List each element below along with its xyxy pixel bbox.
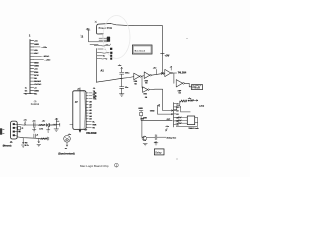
svg-text:(1): (1) (34, 101, 37, 103)
wire flag to ladder (158, 113, 173, 114)
svg-text:GND: GND (34, 66, 39, 68)
power connector pins under box (99, 34, 107, 40)
svg-text:A6: A6 (89, 109, 91, 112)
svg-text:GND: GND (150, 111, 155, 113)
connector J1 pin 4 with label VID (31, 50, 39, 52)
chain1 wire (19, 124, 56, 126)
cap column +5 arrow (121, 67, 123, 71)
tall box pin A3 (86, 118, 88, 120)
svg-text:Delay: Delay (155, 152, 162, 154)
svg-text:+5: +5 (36, 134, 38, 136)
chain2 drop 2 (37, 139, 41, 147)
svg-text:GND: GND (34, 44, 39, 46)
svg-text:TNR: TNR (92, 124, 97, 126)
svg-text:GND: GND (34, 90, 39, 92)
wire U5 output to ladder (149, 89, 173, 111)
wire U3 output junction (172, 73, 176, 83)
svg-text:NC: NC (34, 94, 38, 96)
connector J1 pin 8 with label SND (31, 62, 40, 64)
svg-text:SD: SD (34, 78, 37, 80)
tall box pin A8 (86, 103, 88, 105)
tall box pin A4 (86, 115, 88, 117)
connector J1 pin 2 with label GND (31, 44, 40, 46)
inverter U4 triangle (176, 80, 182, 87)
power PCB box outline (97, 24, 111, 35)
wire from +5v stub to power pins (89, 42, 107, 45)
connector J1 pin 7 with label +12v (31, 59, 52, 61)
tall box pin KE (86, 98, 88, 100)
arrow mark left margin (81, 35, 83, 37)
svg-text:A3: A3 (89, 118, 91, 121)
connector J1 pin 12 with label SCK (31, 75, 40, 77)
connector J1 pin 5 with label HSY (31, 53, 40, 55)
IC box input wires (176, 117, 188, 123)
IC input zigzag a (177, 117, 181, 119)
junction tick at +5V node (161, 54, 165, 56)
svg-text:→+12v: →+12v (44, 59, 51, 61)
connector A1 row 4 (97, 57, 106, 60)
74ALS IC box (187, 116, 194, 125)
svg-text:100u: 100u (125, 73, 130, 75)
diode D1 pair (46, 123, 52, 126)
junction of +5V rail with clock wire (161, 56, 163, 75)
svg-text:D0: D0 (177, 103, 179, 105)
svg-text:Mac Logic Board Chip: Mac Logic Board Chip (80, 164, 109, 168)
svg-text:5v: 5v (103, 56, 105, 58)
arrow under tall box (79, 129, 81, 132)
end bars chain2 (47, 137, 48, 140)
mouse connector pin 3 (13, 131, 15, 133)
svg-text:SCK: SCK (34, 75, 39, 77)
ground under Q1 (143, 143, 147, 145)
stray dot right of wire (186, 38, 187, 39)
speaker circle (64, 136, 71, 143)
resistor R1 vertical (24, 121, 26, 125)
wire rise from A1 node to U1 input (122, 77, 134, 79)
svg-text:Control: Control (31, 103, 40, 106)
crystal X1 body (140, 112, 143, 115)
caption circled 1 (115, 163, 119, 167)
connector J1 pin 1 with label +5v (31, 41, 39, 43)
ladder tap D3 (174, 113, 176, 115)
connector J1 pin 16 with label +5 (25, 87, 38, 89)
ground drop under C3 (32, 127, 36, 132)
tall box pin A9 (86, 101, 88, 103)
ground under C5 (154, 143, 158, 145)
tall box pin A7 (86, 106, 88, 108)
svg-text:(Synchronized): (Synchronized) (58, 153, 75, 156)
crystal X1 bottom lead (140, 116, 142, 121)
svg-text:A7: A7 (89, 106, 91, 109)
svg-text:(+5v): (+5v) (199, 105, 204, 107)
svg-text:→NTSC: →NTSC (42, 56, 50, 58)
top chain staircase wire (174, 101, 180, 110)
IC input zigzag c (177, 122, 181, 124)
clock output box PH0 (192, 85, 203, 90)
IC input zigzag b (177, 120, 181, 122)
faint pencil circle artifact (103, 16, 130, 59)
tall box pin XL (86, 121, 88, 123)
capacitor C4 above chain2 (34, 134, 35, 138)
svg-text:A5: A5 (89, 112, 91, 115)
connector A1 row 3 (97, 55, 103, 57)
tall box pin TK (86, 126, 88, 128)
tall box pin XX (86, 92, 88, 94)
resistor R2 zigzag (38, 124, 44, 126)
crystal X1 top lead (139, 111, 143, 113)
cable tab off-page left (0, 128, 2, 134)
svg-text:74ALS talk: 74ALS talk (188, 127, 199, 130)
mouse connector pin 1 (13, 123, 15, 125)
svg-text:πr: πr (65, 147, 68, 150)
svg-text:+5V: +5V (165, 54, 170, 58)
wire A1 horizontal to cap node (96, 78, 121, 82)
end stack vertical bar (56, 119, 59, 129)
tall box pin A6 (86, 109, 88, 111)
svg-text:GE: GE (94, 96, 98, 98)
tall box pin A5 (86, 112, 88, 114)
pin3 blob (19, 131, 21, 133)
svg-text:→+12v: →+12v (40, 47, 47, 49)
tall box left tick (70, 124, 73, 126)
inverter U3 triangle (165, 69, 171, 76)
svg-text:HSY: HSY (34, 53, 39, 55)
delay box (154, 149, 164, 155)
connector J1 pin 13 with label SD (31, 78, 38, 80)
connector A1 row 2 (97, 51, 110, 54)
wire A1 down-left vertical (96, 49, 98, 83)
arrow +5v down (166, 128, 168, 131)
svg-text:delay line: delay line (167, 137, 178, 139)
ladder tap D4 (174, 116, 176, 118)
connector J1 pin 9 with label GND (31, 66, 40, 68)
tall box pin GE (86, 95, 88, 97)
wire crystal row horizontal (141, 119, 172, 121)
svg-text:VID: VID (34, 50, 38, 52)
ladder tap D1 (174, 106, 176, 108)
mouse connector pin 4 (13, 134, 15, 136)
mouse connector J5 outline (11, 121, 18, 139)
svg-text:D2: D2 (177, 110, 179, 112)
top chain arrow out (193, 100, 197, 101)
wire drop to U5 input (141, 76, 143, 87)
pin2 jack box (18, 127, 21, 130)
chain2 wire (17, 137, 47, 139)
wire Q1 to C5 (147, 137, 156, 139)
+5v stub wire left of power box (87, 30, 90, 42)
svg-text:VSYNC: VSYNC (34, 84, 42, 86)
mouse connector pin 2 (13, 127, 15, 129)
connector J1 bottom foot wire (24, 93, 31, 95)
svg-text:D3: D3 (177, 114, 179, 116)
ladder tap D0 (174, 102, 176, 104)
connector J1 vertical bus line (29, 40, 31, 94)
cap column mid wire and junction (120, 76, 123, 87)
speaker down pin (66, 142, 68, 146)
svg-text:GND: GND (138, 108, 143, 110)
capacitor C2 plates (120, 87, 124, 94)
ground drop under D1 (47, 127, 50, 133)
connector J1 pin 6 with label NTSC (31, 56, 50, 58)
svg-text:→: → (104, 49, 106, 51)
tall box centre pin line (79, 88, 81, 131)
svg-text:74LS04: 74LS04 (178, 71, 187, 74)
tall box outline (73, 91, 86, 130)
connector J1 pin 15 with label VSYNC (31, 84, 42, 86)
wavy line under power pins (94, 44, 110, 46)
connector A1 row 1 (98, 48, 103, 50)
capacitor C1 plates (120, 71, 124, 76)
chain2 drop 1 (21, 138, 25, 148)
bus block box inner (133, 46, 151, 53)
svg-text:A8: A8 (89, 103, 91, 106)
svg-text:KE: KE (94, 99, 98, 101)
tall box inner curve (84, 91, 85, 129)
junction dot top chain (188, 100, 190, 102)
bus block box outer (132, 45, 152, 54)
pin flag symbol (158, 105, 160, 115)
wire +5V rail vertical drop (161, 26, 163, 54)
inverter U5 triangle (143, 87, 148, 93)
connector J1 pin 11 with label PB6 (31, 72, 40, 74)
svg-text:D6: D6 (177, 124, 179, 126)
wire from Power PCB to +5V rail corner (111, 24, 163, 26)
ladder vertical bus (173, 103, 175, 127)
connector J1 pin 14 with label RESET (31, 81, 42, 83)
ground under cap column (119, 94, 124, 96)
svg-text:A9: A9 (89, 100, 91, 103)
svg-text:SND: SND (34, 62, 39, 64)
capacitor C5 vertical plates (155, 135, 166, 140)
svg-text:(1): (1) (167, 119, 170, 121)
wire U4 to PH0 box (184, 83, 191, 87)
IC box output feedback loop (176, 117, 197, 126)
svg-text:Power PCB: Power PCB (99, 27, 113, 30)
connector J1 pin 10 with label +5v (31, 69, 39, 71)
inverter U1 triangle (134, 73, 140, 80)
capacitor C3 on chain (34, 123, 36, 128)
svg-text:(Mouse): (Mouse) (3, 145, 12, 147)
transistor Q1 symbol (142, 136, 147, 141)
ladder tap D2 (174, 109, 176, 111)
wire U2 to U3 (151, 73, 164, 75)
ladder tap D5 (174, 120, 176, 122)
svg-text:PAL/RAM: PAL/RAM (86, 132, 96, 135)
resistor R3 zigzag chain2 (40, 138, 47, 140)
tall box pin TNR (86, 124, 88, 126)
svg-text:XX: XX (94, 93, 98, 95)
connector J1 pin 3 with label +12v (31, 47, 48, 49)
ladder branch wire mid (176, 106, 190, 112)
inverter U2 triangle (144, 72, 150, 79)
wire U1 to U2 (141, 75, 144, 78)
svg-text:PH0clk: PH0clk (192, 88, 200, 90)
stray pencil dot (176, 158, 177, 159)
tick up at right end of crystal row (169, 118, 171, 120)
x mark above power box corner (95, 21, 97, 23)
top chain resistor R11 (190, 100, 194, 102)
svg-text:A1: A1 (101, 69, 105, 73)
ladder tap D6 (174, 123, 176, 125)
power connector body blob (107, 37, 110, 42)
connector J1 pin 18 with label NC (25, 94, 38, 96)
svg-text:Bus block: Bus block (135, 50, 146, 52)
wire subcircuit left vertical (141, 120, 143, 137)
connector J1 pin 17 with label GND (25, 90, 40, 92)
svg-text:RESET: RESET (34, 81, 42, 83)
